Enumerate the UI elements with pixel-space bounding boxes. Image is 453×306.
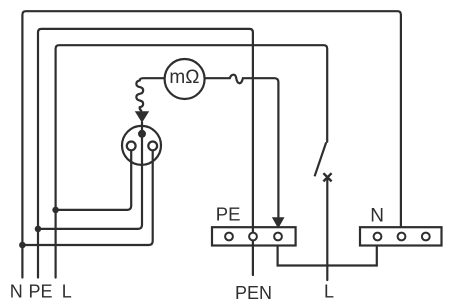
terminal PE-3 (274, 233, 282, 241)
node junction N (19, 242, 26, 249)
svg-text:PE: PE (29, 282, 53, 302)
node junction PE (35, 226, 42, 233)
svg-text:L: L (324, 282, 334, 302)
wire N supply loop (22, 11, 401, 277)
wire PE branch to socket earth pin (38, 122, 142, 229)
wire N branch to socket right pin (22, 150, 152, 245)
wire meter right lead with kink (204, 75, 278, 217)
svg-text:mΩ: mΩ (169, 67, 199, 88)
wire PE supply loop (38, 29, 253, 278)
terminal N-2 (398, 233, 406, 241)
terminal N-1 (374, 233, 382, 241)
terminal strip PE (212, 227, 296, 245)
wire PEN bridge PE strip to N strip (278, 246, 377, 266)
probe arrow at PE strip (272, 217, 285, 228)
socket X1 right pin hole (148, 142, 157, 151)
svg-text:PEN: PEN (235, 283, 272, 303)
socket X1 earth pin (138, 130, 146, 138)
svg-text:PE: PE (216, 204, 241, 225)
socket X1 left pin hole (127, 142, 136, 151)
wire L supply loop (56, 45, 328, 277)
socket X1 outline (122, 126, 161, 165)
wire meter left lead with coiled cord (136, 78, 164, 110)
wire L branch to socket left pin (56, 150, 132, 210)
switch S1 contact cross (323, 173, 331, 181)
svg-text:N: N (10, 282, 23, 302)
wire PE loop through strip (252, 227, 254, 245)
terminal PE-1 (225, 233, 233, 241)
wire switch to L terminal (326, 180, 328, 281)
switch S1 blade (315, 142, 327, 176)
terminal strip N (360, 227, 442, 245)
probe arrow at socket (135, 111, 149, 123)
meter mOhm circle (165, 59, 205, 99)
node junction L (52, 207, 59, 214)
svg-text:L: L (62, 282, 72, 302)
terminal N-3 (422, 233, 430, 241)
svg-text:N: N (370, 205, 384, 226)
terminal PE-2 (249, 233, 257, 241)
